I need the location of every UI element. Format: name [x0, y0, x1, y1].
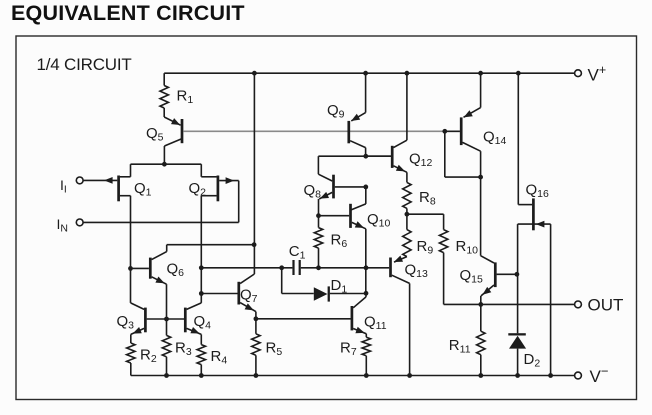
wire OUT line [444, 303, 575, 305]
wire Q10 emitter bus [364, 229, 369, 296]
terminal OUT [575, 296, 624, 315]
transistor Q16 (output JFET) [518, 73, 551, 230]
resistor R6 [314, 228, 347, 268]
wire V+ bus to Q7 collector [253, 73, 255, 274]
resistor R7 [340, 337, 371, 375]
wire Q16 left lead to Q15 base and D2 [517, 224, 519, 333]
transistor Q11 [351, 293, 387, 337]
wire compensation node rail (C1/R6/Q13 base) [201, 265, 389, 270]
wire R8/R9 node to R10 [407, 214, 444, 229]
resistor R5 [252, 319, 283, 376]
resistor R11 [449, 331, 485, 375]
wire V+ top rail with junctions [164, 71, 574, 76]
transistor Q12 [366, 73, 433, 182]
resistor R9 [403, 214, 434, 256]
capacitor C1 [289, 243, 306, 275]
terminal input IN [57, 216, 239, 235]
transistor Q6 [131, 245, 185, 319]
resistor R1 [160, 73, 193, 117]
transistor Q2 (input JFET) [189, 164, 239, 222]
wire V- bottom rail with junctions [131, 373, 575, 378]
transistor Q8 [304, 156, 369, 227]
transistor Q1 (input JFET) [83, 164, 151, 201]
wire Q14 base-collector jog [445, 131, 483, 179]
resistor R10 [439, 230, 478, 305]
resistor R8 [403, 182, 436, 216]
transistor Q10 [319, 187, 391, 230]
wire D1 anode jog [282, 268, 314, 294]
resistor R4 [197, 345, 227, 376]
transistor Q4 [184, 303, 211, 345]
wire Q16 right lead to V- rail [550, 224, 552, 375]
transistor Q9 [327, 73, 366, 156]
resistor R3 [162, 319, 192, 376]
wire Q13 collector to V- rail [409, 283, 411, 375]
svg-text:EQUIVALENT CIRCUIT: EQUIVALENT CIRCUIT [11, 1, 245, 25]
wire Q7 emitter node to Q11 base [254, 316, 351, 321]
wire Q8/Q9/Q12 node rail [318, 154, 391, 159]
wire bias line (Q5/Q9/Q14 bases) [183, 129, 460, 134]
terminal input I1 [60, 177, 83, 196]
wire Q3/Q4 base rail [147, 317, 184, 322]
svg-text:1/4 CIRCUIT: 1/4 CIRCUIT [37, 55, 132, 74]
wire Q14 collector bus [480, 151, 482, 256]
terminal V+ [575, 63, 607, 85]
transistor Q7 [201, 274, 257, 319]
transistor Q3 [117, 303, 147, 343]
wire Q1 drain to Q3 collector [128, 196, 133, 303]
wire Q6 collector to bus [167, 242, 257, 247]
wire Q2 drain to Q4 collector [199, 196, 204, 303]
terminal V- [575, 364, 609, 387]
resistor R2 [127, 343, 157, 376]
diode D1 [314, 277, 366, 302]
wire Q1/Q2 source rail [131, 162, 202, 167]
transistor Q15 [460, 256, 520, 332]
diode D2 [508, 333, 540, 375]
transistor Q14 [445, 73, 507, 151]
svg-text:OUT: OUT [588, 296, 624, 315]
transistor Q5 [146, 117, 183, 164]
transistor Q13 [389, 256, 428, 284]
